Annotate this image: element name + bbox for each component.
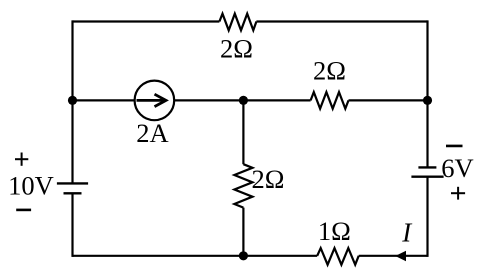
- label V1 plus sign: [15, 153, 28, 166]
- svg-text:2Ω: 2Ω: [252, 164, 285, 194]
- resistor R3 2ohm vertical: [234, 164, 252, 207]
- node C right-middle junction: [423, 96, 432, 105]
- current source I1 arrow: [137, 94, 167, 106]
- wire top-left horizontal: [73, 20, 220, 22]
- label V2 plus sign: [451, 187, 465, 200]
- label V1 minus sign: [16, 209, 31, 212]
- current source I1 circle: [135, 81, 175, 121]
- current arrow I head: [396, 252, 405, 261]
- svg-text:I: I: [401, 218, 413, 248]
- svg-text:2Ω: 2Ω: [220, 33, 253, 63]
- wire top-right horizontal: [256, 20, 427, 22]
- node B center-middle junction: [239, 96, 248, 105]
- wire center vertical upper: [242, 100, 244, 164]
- wire left vertical upper: [71, 20, 73, 183]
- node A left-middle junction: [68, 96, 77, 105]
- wire right vertical lower: [426, 177, 428, 257]
- battery V1 10V short plate: [64, 192, 82, 194]
- wire middle-center horizontal: [174, 99, 310, 101]
- battery V2 6V short plate: [418, 166, 436, 168]
- svg-text:10V: 10V: [8, 171, 54, 201]
- wire bottom-left horizontal: [73, 255, 318, 257]
- svg-text:2A: 2A: [136, 118, 168, 148]
- resistor R4 1ohm bottom: [317, 248, 359, 265]
- wire left vertical lower: [71, 193, 73, 257]
- wire bottom-right horizontal: [359, 255, 428, 257]
- svg-text:1Ω: 1Ω: [318, 216, 351, 246]
- battery V1 10V long plate: [57, 182, 88, 184]
- wire center vertical lower: [242, 208, 244, 256]
- resistor R1 2ohm top: [219, 14, 256, 31]
- svg-text:2Ω: 2Ω: [313, 56, 346, 86]
- label V2 minus sign: [446, 145, 463, 148]
- battery V2 6V long plate: [411, 175, 443, 177]
- node D center-bottom junction: [239, 251, 248, 260]
- wire middle-right horizontal: [349, 99, 428, 101]
- wire middle-left horizontal: [73, 99, 135, 101]
- resistor R2 2ohm middle: [311, 92, 349, 109]
- wire right vertical upper: [426, 20, 428, 167]
- svg-text:6V: 6V: [441, 153, 473, 183]
